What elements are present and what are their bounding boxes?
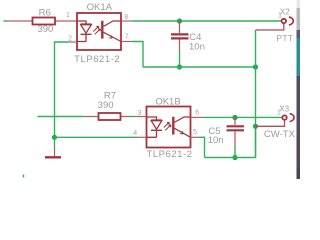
wire pin2 to ground vertical xyxy=(55,42,69,137)
OK1B pin 3 stub xyxy=(135,116,147,118)
wire stub bottom left xyxy=(23,175,25,178)
svg-text:5: 5 xyxy=(193,129,197,136)
optocoupler OK1A box xyxy=(77,13,121,50)
svg-text:390: 390 xyxy=(98,100,114,111)
connector X2 contact arc xyxy=(289,17,293,25)
wire net stub left of R6 xyxy=(4,20,9,22)
svg-text:2: 2 xyxy=(68,35,72,42)
svg-text:TLP621-2: TLP621-2 xyxy=(146,149,192,160)
wire pin5 corner to bottom rail xyxy=(199,137,205,157)
svg-text:TLP621-2: TLP621-2 xyxy=(74,54,120,65)
connector X3 contact arc xyxy=(290,114,294,122)
resistor R1 pins (R6) xyxy=(8,20,77,22)
svg-text:1: 1 xyxy=(277,110,281,117)
node rail-vertical junction xyxy=(253,64,258,69)
OK1B light arrows xyxy=(164,122,171,130)
screen edge panel strip xyxy=(297,0,301,179)
node C4 top junction xyxy=(177,18,182,23)
wire R7 left xyxy=(38,116,85,118)
node C5 top junction xyxy=(232,115,237,120)
svg-text:PTT: PTT xyxy=(276,33,293,43)
OK1B phototransistor xyxy=(173,117,190,138)
wire R7 to OK1B pin3 xyxy=(130,116,135,118)
OK1B pin 4 stub xyxy=(138,136,147,138)
svg-text:1: 1 xyxy=(278,13,282,20)
wire bottom rail xyxy=(205,126,256,158)
svg-text:OK1B: OK1B xyxy=(155,96,180,107)
connector X3 circle xyxy=(282,115,286,119)
svg-text:OK1A: OK1A xyxy=(87,2,113,13)
svg-text:1: 1 xyxy=(66,12,70,19)
OK1A LED xyxy=(77,21,92,42)
OK1A light arrows xyxy=(93,26,100,34)
resistor R7 pins xyxy=(84,116,130,118)
svg-text:8: 8 xyxy=(124,14,128,21)
wire top rail pin8 to X2 xyxy=(132,20,282,22)
wire pin6 rail to X3 xyxy=(204,116,282,118)
svg-text:390: 390 xyxy=(37,24,53,35)
svg-text:7: 7 xyxy=(125,34,129,41)
node X3 junction xyxy=(253,124,258,129)
wire pin7 corner to rail xyxy=(132,42,143,68)
node C5 bottom junction xyxy=(232,155,237,160)
OK1A pin 2 stub xyxy=(69,41,78,43)
resistor R7 body xyxy=(99,113,121,120)
resistor R6 body xyxy=(33,18,56,25)
OK1A pin 8 stub xyxy=(121,20,132,22)
wire C5 bottom xyxy=(234,146,236,158)
svg-text:R6: R6 xyxy=(39,7,51,18)
wire y137 rail (gnd to pin4) xyxy=(55,136,138,138)
svg-text:10n: 10n xyxy=(208,135,224,146)
ground lead xyxy=(54,140,56,147)
OK1B pin 5 stub xyxy=(191,136,200,138)
svg-text:X3: X3 xyxy=(279,104,289,113)
svg-text:CW-TX: CW-TX xyxy=(264,129,296,140)
wire C4 bottom xyxy=(179,51,181,67)
connector X2 circle xyxy=(282,19,286,23)
OK1A pin 7 stub xyxy=(121,41,132,43)
wire vertical x255 xyxy=(255,30,257,158)
OK1A phototransistor xyxy=(102,21,121,42)
OK1B LED xyxy=(147,117,163,137)
svg-text:6: 6 xyxy=(195,109,199,116)
svg-text:10n: 10n xyxy=(189,42,205,53)
connector X3 sleeve wire xyxy=(256,120,285,126)
connector X2 sleeve wire xyxy=(256,24,284,30)
node C4 bottom junction xyxy=(177,64,182,69)
ground symbol xyxy=(45,147,61,157)
OK1B pin 6 stub xyxy=(191,116,205,118)
svg-text:4: 4 xyxy=(133,130,137,137)
optocoupler OK1B box xyxy=(147,107,191,148)
node ground junction xyxy=(52,135,57,140)
capacitor C5 xyxy=(227,118,245,147)
wire rail y67 xyxy=(143,66,256,68)
capacitor C4 xyxy=(171,21,189,51)
